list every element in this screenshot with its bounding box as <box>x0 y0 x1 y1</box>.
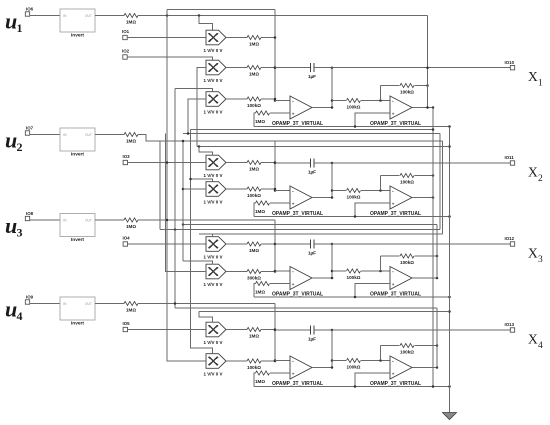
node cap tap <box>274 66 277 69</box>
resistor 1MΩ ch4.1 <box>247 327 261 331</box>
resistor 1MΩ ch1.1 <box>247 35 261 39</box>
svg-text:IO12: IO12 <box>505 236 515 241</box>
wire cap branch <box>275 67 311 69</box>
node inverter inverting input <box>379 359 382 362</box>
capacitor 1µF ch3 <box>310 240 312 249</box>
svg-text:-: - <box>392 358 394 364</box>
wire left bus L160 <box>159 141 161 230</box>
resistor 1MΩ ch2.1 <box>247 160 261 164</box>
svg-text:1MΩ: 1MΩ <box>255 209 265 214</box>
svg-text:1MΩ: 1MΩ <box>126 139 136 144</box>
wire non-inverting rail <box>254 296 450 298</box>
svg-text:IO8: IO8 <box>26 211 34 216</box>
multiplier A21 <box>206 155 226 170</box>
svg-text:u: u <box>5 128 17 153</box>
resistor 1MΩ input ch3 <box>124 218 138 222</box>
svg-text:3: 3 <box>17 225 23 239</box>
wire cap to output node <box>314 162 332 164</box>
subcircuit block input block ch2 <box>60 128 95 151</box>
node interstage tap <box>331 359 334 362</box>
node b3b join <box>448 310 451 313</box>
node integrator output <box>331 162 334 165</box>
multiplier A42 <box>206 354 226 369</box>
wire bias to common rail <box>254 373 256 387</box>
wire IO5 to multiplier y-input <box>128 329 207 331</box>
node summing junction <box>274 66 277 69</box>
svg-text:IO1: IO1 <box>122 29 130 34</box>
subcircuit block input block ch4 <box>60 297 95 320</box>
wire band2 line a <box>183 224 437 226</box>
wire IO1 to multiplier A11 y-input <box>127 37 206 39</box>
svg-text:1MΩ: 1MΩ <box>249 167 259 172</box>
wire inverter output <box>412 367 437 369</box>
svg-text:1 V/V 0 V: 1 V/V 0 V <box>204 282 223 287</box>
wire ch3 output bus vertical <box>436 225 438 279</box>
wire ch2 mult2 x-input feeder <box>191 179 213 182</box>
resistor 1MΩ input ch4 <box>124 301 138 305</box>
wire summing vertical <box>274 304 276 361</box>
wire band1 line c <box>160 140 443 142</box>
wire band2 line b <box>160 229 440 231</box>
resistor 1MΩ bias ch1 <box>270 112 290 114</box>
node inverter inverting input <box>379 189 382 192</box>
svg-text:100kΩ: 100kΩ <box>400 180 414 185</box>
svg-text:IO5: IO5 <box>123 321 131 326</box>
svg-text:u: u <box>5 213 17 238</box>
wire to summing node <box>261 271 275 273</box>
wire feedback branch up <box>380 346 382 361</box>
wire u3 feed to summing node <box>138 219 275 221</box>
svg-text:1MΩ: 1MΩ <box>126 308 136 313</box>
wire to inverter non-inverting input <box>355 113 390 127</box>
svg-text:1µF: 1µF <box>308 74 316 79</box>
node summing junction <box>274 188 277 191</box>
svg-text:+: + <box>392 282 395 287</box>
wire left bus L175 <box>174 89 176 309</box>
resistor 1MΩ ch3.1 <box>247 242 261 246</box>
svg-text:100kΩ: 100kΩ <box>247 103 261 108</box>
wire pad to block <box>30 219 60 221</box>
wire output row to IO pad <box>332 162 510 164</box>
node band2b join <box>174 228 177 231</box>
resistor 300kΩ ch3.2 <box>247 269 261 273</box>
op-amp U1A <box>290 96 312 119</box>
wire left bus L188 ch1 mult3 y-input <box>188 99 206 134</box>
svg-text:1MΩ: 1MΩ <box>126 224 136 229</box>
svg-text:-: - <box>292 188 294 194</box>
wire inverter output <box>412 197 433 199</box>
svg-text:X: X <box>528 331 538 346</box>
svg-text:1 V/V 0 V: 1 V/V 0 V <box>204 372 223 377</box>
svg-text:-: - <box>292 269 294 275</box>
svg-text:X: X <box>528 245 538 260</box>
svg-text:X: X <box>528 69 538 84</box>
resistor 1MΩ bias ch2 <box>270 202 290 204</box>
svg-text:1MΩ: 1MΩ <box>255 119 265 124</box>
multiplier A13 <box>206 92 226 107</box>
node band2a join <box>182 223 185 226</box>
wire ch2 mult2 y-input stub <box>183 188 206 190</box>
wire to integrator inverting input <box>275 190 290 192</box>
node feedback join <box>432 174 435 177</box>
wire IO4 to multiplier y-input <box>128 243 207 245</box>
resistor 1MΩ ch1.2 <box>247 65 261 69</box>
op-amp U2B <box>390 186 412 209</box>
wire band1 line d <box>197 146 450 148</box>
wire to summing node <box>261 67 275 69</box>
node rail join ground bus <box>448 125 451 128</box>
wire to inverter stage <box>332 190 346 192</box>
node interstage tap <box>331 189 334 192</box>
wire multiplier output ch2.2 <box>226 188 247 190</box>
svg-text:IO11: IO11 <box>505 155 515 160</box>
resistor 1MΩ bias ch3 <box>270 283 290 285</box>
wire bias to common rail <box>254 113 256 127</box>
svg-text:OUT: OUT <box>85 302 92 306</box>
node summing junction <box>274 360 277 363</box>
svg-text:IO2: IO2 <box>122 49 130 54</box>
node feedback join <box>436 344 439 347</box>
wire bias to common rail <box>254 203 256 217</box>
svg-text:IO7: IO7 <box>26 126 34 131</box>
svg-text:1 V/V 0 V: 1 V/V 0 V <box>204 173 223 178</box>
wire top link from left bus to summing node <box>167 9 275 11</box>
wire IO2 to multiplier A12 x-input <box>127 57 212 60</box>
wire to summing node <box>261 360 275 362</box>
node ch2 mult2 y-input tap <box>182 188 185 191</box>
resistor 100kΩ ch4.2 <box>247 359 261 363</box>
node cap tap <box>274 329 277 332</box>
wire right bus 442.5 <box>442 141 444 234</box>
wire pad to block <box>30 134 60 136</box>
svg-text:Invert: Invert <box>71 152 84 158</box>
resistor 100kΩ interstage ch2 <box>347 188 361 192</box>
wire right bus main vertical <box>432 108 434 387</box>
svg-text:+: + <box>292 372 295 377</box>
node feed crossing taps <box>166 161 169 164</box>
resistor 1MΩ input ch2 <box>124 132 138 136</box>
wire band2 line c <box>199 233 443 235</box>
wire block to resistor <box>95 15 124 17</box>
node ch2 m2 feeder tap <box>189 178 192 181</box>
svg-text:1MΩ: 1MΩ <box>255 289 265 294</box>
svg-text:100kΩ: 100kΩ <box>247 193 261 198</box>
resistor 100kΩ ch2.2 <box>247 187 261 191</box>
node inverting input <box>274 189 277 192</box>
node interstage tap <box>331 99 334 102</box>
wire block to resistor <box>95 219 124 221</box>
resistor 1MΩ input ch1 <box>124 13 138 17</box>
svg-text:IO4: IO4 <box>123 235 131 240</box>
subcircuit block input block ch3 <box>60 214 95 237</box>
wire to integrator inverting input <box>275 100 290 102</box>
svg-text:100kΩ: 100kΩ <box>347 365 361 370</box>
wire inverter output <box>412 277 437 279</box>
node feedback join <box>436 255 439 258</box>
wire multiplier output ch1.3 <box>226 98 247 100</box>
wire jog to multiplier A21 x-input <box>199 147 213 156</box>
wire output row to IO pad <box>332 243 510 245</box>
svg-text:1MΩ: 1MΩ <box>255 379 265 384</box>
svg-text:-: - <box>392 188 394 194</box>
wire multiplier output ch2.1 <box>226 162 247 164</box>
svg-text:100kΩ: 100kΩ <box>400 90 414 95</box>
svg-text:IN: IN <box>63 302 67 306</box>
resistor 1MΩ bias ch4 <box>270 372 290 374</box>
wire to inverter stage <box>332 270 346 272</box>
wire feedback branch up <box>380 176 382 191</box>
node L188 join <box>187 132 190 135</box>
node inverting input <box>274 359 277 362</box>
multiplier A41 <box>206 322 226 337</box>
svg-text:100kΩ: 100kΩ <box>400 350 414 355</box>
node summing junction <box>274 243 277 246</box>
wire op-amp output up to cap node <box>312 68 332 108</box>
resistor 100kΩ ch1.3 <box>247 97 261 101</box>
resistor 100kΩ interstage ch1 <box>347 98 361 102</box>
wire output row to IO pad <box>332 329 510 331</box>
node b1d join <box>448 145 451 148</box>
node integrator output <box>331 329 334 332</box>
wire left bus L167 to ch4 mult2 y-input <box>167 10 206 362</box>
wire to summing node <box>261 188 275 190</box>
node inverter inverting input <box>379 99 382 102</box>
resistor 100kΩ feedback ch4 <box>400 343 414 347</box>
node band1a join bus <box>432 128 435 131</box>
wire left bus L197 ch1 mult2 y-input <box>197 68 206 147</box>
node top vertical crossings <box>426 66 429 69</box>
svg-text:1: 1 <box>538 79 543 89</box>
wire multiplier output ch3.2 <box>226 271 247 273</box>
svg-text:1 V/V 0 V: 1 V/V 0 V <box>204 255 223 260</box>
wire to inverter stage <box>332 100 346 102</box>
wire pad to block <box>30 15 60 17</box>
wire IO3 to multiplier y-input <box>128 162 207 164</box>
svg-text:3: 3 <box>538 255 543 265</box>
ground symbol <box>443 413 457 420</box>
wire cap branch <box>275 162 311 164</box>
wire non-inverting rail <box>254 126 450 128</box>
svg-text:IN: IN <box>63 219 67 223</box>
svg-text:1 V/V 0 V: 1 V/V 0 V <box>204 78 223 83</box>
wire block to resistor <box>95 303 124 305</box>
wire band3 line b <box>199 311 450 313</box>
node bus joins ch4 rail <box>432 385 435 388</box>
node feedback join <box>426 84 429 87</box>
wire u1 feed across top <box>138 15 428 17</box>
node inverter inverting input <box>379 270 382 273</box>
svg-text:1MΩ: 1MΩ <box>249 248 259 253</box>
node inverter output <box>432 106 435 109</box>
wire band3 line a <box>175 307 437 309</box>
wire ch1 mult3 x-input feeder <box>175 89 213 92</box>
node rail join ground bus <box>448 215 451 218</box>
wire jog to multiplier A31 x-input <box>212 234 214 237</box>
node inverting input <box>274 99 277 102</box>
node integrator output <box>331 66 334 69</box>
multiplier A22 <box>206 182 226 197</box>
wire to summing node <box>261 329 275 331</box>
node inverting input <box>274 270 277 273</box>
svg-text:IO9: IO9 <box>26 295 34 300</box>
node inverter output <box>436 366 439 369</box>
wire multiplier output ch1.2 <box>226 67 247 69</box>
svg-text:100kΩ: 100kΩ <box>347 105 361 110</box>
op-amp U2A <box>290 186 312 209</box>
wire band1 line a <box>191 129 434 131</box>
wire right bus ground line <box>449 127 451 414</box>
capacitor 1µF ch1 <box>310 63 312 72</box>
wire jog to multiplier A41 x-input <box>199 312 213 323</box>
svg-text:2: 2 <box>17 140 23 154</box>
svg-text:X: X <box>528 164 538 179</box>
node summing junction <box>274 36 277 39</box>
wire to inverter stage <box>332 360 346 362</box>
wire bias to common rail <box>254 284 256 298</box>
svg-text:4: 4 <box>538 341 543 351</box>
wire op-amp output up to cap node <box>312 244 332 278</box>
wire ch3 mult2 x-input feeder <box>183 261 213 264</box>
resistor 100kΩ feedback ch3 <box>400 254 414 258</box>
svg-text:IO13: IO13 <box>505 322 515 327</box>
svg-text:-: - <box>292 98 294 104</box>
wire to summing node <box>261 37 275 39</box>
wire to integrator inverting input <box>275 270 290 272</box>
svg-text:1 V/V 0 V: 1 V/V 0 V <box>204 340 223 345</box>
multiplier A12 <box>206 60 226 75</box>
capacitor 1µF ch2 <box>310 159 312 168</box>
wire cap to output node <box>314 243 332 245</box>
op-amp U4B <box>390 356 412 379</box>
svg-text:+: + <box>292 282 295 287</box>
svg-text:Invert: Invert <box>71 237 84 243</box>
wire op-amp output up to cap node <box>312 163 332 198</box>
wire cap to output node <box>314 329 332 331</box>
wire cap branch <box>275 329 311 331</box>
wire multiplier output ch3.1 <box>226 243 247 245</box>
svg-text:1MΩ: 1MΩ <box>126 20 136 25</box>
svg-text:+: + <box>292 112 295 117</box>
wire left bus L190 to ch4 mult2 x-input feeder <box>191 130 213 354</box>
svg-text:1MΩ: 1MΩ <box>249 42 259 47</box>
wire summing vertical <box>274 141 276 191</box>
wire to inverter non-inverting input <box>355 373 390 387</box>
svg-text:IO3: IO3 <box>123 154 131 159</box>
svg-text:u: u <box>5 9 17 34</box>
wire cap branch <box>275 243 311 245</box>
svg-text:1 V/V 0 V: 1 V/V 0 V <box>204 48 223 53</box>
svg-text:100kΩ: 100kΩ <box>247 365 261 370</box>
node rail join ground bus <box>448 296 451 299</box>
svg-text:1 V/V 0 V: 1 V/V 0 V <box>204 200 223 205</box>
wire block to resistor <box>95 134 124 136</box>
svg-text:-: - <box>292 358 294 364</box>
svg-text:100kΩ: 100kΩ <box>347 195 361 200</box>
wire right bus 440 <box>439 134 441 230</box>
wire to summing node <box>261 162 275 164</box>
node summing junction <box>274 98 277 101</box>
node summing junction <box>274 270 277 273</box>
wire non-inverting rail <box>254 386 450 388</box>
op-amp U3B <box>390 267 412 290</box>
wire to summing node <box>261 243 275 245</box>
svg-text:IO6: IO6 <box>26 7 34 12</box>
svg-text:IO10: IO10 <box>505 60 515 65</box>
svg-text:OUT: OUT <box>85 219 92 223</box>
svg-text:Invert: Invert <box>71 321 84 327</box>
resistor 100kΩ feedback ch2 <box>400 173 414 177</box>
wire to summing node <box>261 98 275 100</box>
svg-text:+: + <box>392 112 395 117</box>
node summing junction <box>274 161 277 164</box>
svg-text:300kΩ: 300kΩ <box>247 276 261 281</box>
node integrator output <box>331 243 334 246</box>
wire left bus L183 <box>182 141 184 261</box>
node jog ch2 mult x-input <box>198 145 201 148</box>
capacitor 1µF ch4 <box>310 326 312 335</box>
node interstage tap <box>331 270 334 273</box>
wire feedback branch up <box>380 256 382 271</box>
svg-text:-: - <box>392 98 394 104</box>
svg-text:+: + <box>292 202 295 207</box>
svg-text:1MΩ: 1MΩ <box>249 334 259 339</box>
wire output row to IO pad <box>332 67 510 69</box>
multiplier A11 <box>206 30 226 45</box>
op-amp U4A <box>290 356 312 379</box>
svg-text:+: + <box>392 372 395 377</box>
svg-text:1MΩ: 1MΩ <box>249 72 259 77</box>
resistor 100kΩ feedback ch1 <box>400 83 414 87</box>
svg-text:100kΩ: 100kΩ <box>347 275 361 280</box>
svg-text:4: 4 <box>17 309 23 323</box>
svg-text:1: 1 <box>17 21 23 35</box>
svg-text:2: 2 <box>538 174 543 184</box>
svg-text:1µF: 1µF <box>308 337 316 342</box>
node summing junction <box>274 328 277 331</box>
wire inverter output <box>412 107 433 109</box>
svg-text:OUT: OUT <box>85 14 92 18</box>
wire op-amp output up to cap node <box>312 330 332 368</box>
node inverter output <box>432 196 435 199</box>
wire to inverter non-inverting input <box>355 203 390 217</box>
wire feedback branch up <box>380 86 382 101</box>
wire ch4 output bus vertical <box>436 308 438 368</box>
wire multiplier output ch1.1 <box>226 37 247 39</box>
wire summing vertical <box>274 220 276 271</box>
wire non-inverting rail <box>254 216 450 218</box>
svg-text:100kΩ: 100kΩ <box>400 260 414 265</box>
svg-text:Invert: Invert <box>71 33 84 39</box>
wire to inverter non-inverting input <box>355 284 390 298</box>
node rail join ground bus <box>448 385 451 388</box>
svg-text:+: + <box>392 202 395 207</box>
wire jog to multiplier A11 x-input <box>199 16 213 31</box>
wire multiplier output ch4.2 <box>226 360 247 362</box>
wire right bus top vertical <box>427 16 429 108</box>
wire band1 line b <box>183 133 440 135</box>
svg-text:1 V/V 0 V: 1 V/V 0 V <box>204 110 223 115</box>
multiplier A31 <box>206 237 226 252</box>
wire to integrator inverting input <box>275 360 290 362</box>
node cap tap <box>274 162 277 165</box>
wire summing vertical ch1 <box>274 10 276 101</box>
multiplier A32 <box>206 264 226 279</box>
svg-text:IN: IN <box>63 14 67 18</box>
op-amp U1B <box>390 96 412 119</box>
subcircuit block input block ch1 <box>60 9 95 32</box>
wire u2 feed to summing node <box>138 135 275 142</box>
svg-text:IN: IN <box>63 133 67 137</box>
